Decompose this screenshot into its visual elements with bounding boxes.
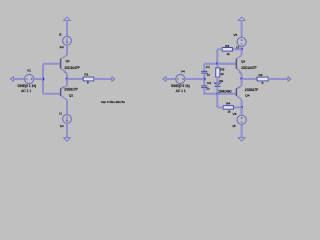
svg-text:R4: R4 (226, 102, 230, 106)
svg-text:R2: R2 (259, 73, 263, 77)
capacitor C1 (201, 65, 210, 77)
diode D3 1N4148 (214, 79, 232, 94)
svg-text:AC 1 1: AC 1 1 (176, 89, 186, 93)
wire Q4 collector down (241, 100, 243, 108)
wire Q3 base (217, 63, 236, 65)
svg-text:C2: C2 (207, 81, 211, 85)
wire I1 to V- flag (66, 123, 68, 137)
wire arrow to V1 (14, 78, 25, 80)
wire output node to Q2 emitter (66, 79, 68, 86)
wire R1 to output arrow (94, 78, 112, 80)
svg-text:2SB817P: 2SB817P (64, 88, 77, 92)
svg-text:SINE(0 5 1k): SINE(0 5 1k) (171, 84, 190, 88)
wire top bias bus (204, 63, 236, 65)
junction dot (C1/C2/V4) (203, 78, 205, 80)
svg-text:R1: R1 (84, 73, 88, 77)
wire V+ to I2 (66, 21, 68, 37)
svg-text:1k: 1k (226, 52, 230, 56)
svg-text:Q2: Q2 (69, 94, 73, 98)
svg-text:SINE(0 1 1k): SINE(0 1 1k) (17, 84, 36, 88)
wire V1 to base column (34, 78, 43, 80)
svg-text:tran 0 40m 20m 5u: tran 0 40m 20m 5u (101, 100, 125, 104)
wire Q3 collector to rail (241, 49, 243, 55)
wire bus corner down to C1 (203, 64, 205, 71)
transistor Q2 2SB817P (PNP) (43, 86, 78, 100)
voltage source V1 SINE(0 1 1k) (17, 69, 36, 93)
resistor R1 (8 ohm load) (83, 73, 94, 85)
wire R4 up to bottom bus (216, 94, 218, 108)
svg-text:1m: 1m (60, 45, 65, 49)
current source I2 (59, 33, 72, 49)
wire output node to R2 (242, 78, 257, 80)
node: left base column wire (42, 64, 44, 94)
wire V6 to V- flag (241, 124, 243, 137)
svg-text:1u: 1u (206, 87, 210, 91)
svg-text:R5: R5 (220, 67, 224, 71)
svg-text:2SD1047P: 2SD1047P (64, 66, 79, 70)
svg-text:V4: V4 (181, 70, 185, 74)
wire R3 down to bias node (216, 49, 218, 64)
svg-text:2SB817P: 2SB817P (245, 88, 258, 92)
resistor R5 (216, 64, 225, 83)
junction dot (emitter/output node) (66, 78, 68, 80)
wire arrow to V4 (166, 78, 176, 80)
power flag V+ (up arrow) (238, 17, 245, 21)
transistor Q1 2SD1047P (NPN) (43, 55, 80, 73)
ground flag (left arrow at V1) (10, 77, 13, 82)
svg-text:Q3: Q3 (241, 59, 245, 63)
wire C1 to V4 node (203, 74, 205, 86)
wire Q2 collector to I1 (66, 100, 68, 115)
voltage source V6 (15V) (232, 107, 246, 128)
capacitor C2 (201, 81, 211, 91)
wire V4 to C1/C2 node (185, 78, 204, 80)
svg-text:V1: V1 (27, 69, 31, 73)
spice directive .tran (101, 100, 125, 104)
svg-text:2SD1047P: 2SD1047P (241, 66, 256, 70)
power flag V- (down arrow) (238, 138, 245, 141)
voltage source V5 (15V) (233, 33, 246, 50)
resistor R3 (217, 44, 241, 56)
svg-text:8: 8 (262, 81, 264, 85)
junction dot (bias bus / R5) (216, 63, 218, 65)
power flag V+ (up arrow) (64, 17, 71, 21)
svg-text:AC 1 1: AC 1 1 (21, 89, 31, 93)
resistor R2 (8 ohm load) (257, 73, 268, 85)
wire R2 to output arrow (268, 78, 288, 80)
ground flag (left arrow at V4) (163, 77, 166, 82)
junction dot (bottom bus / D3 / R4) (216, 93, 218, 95)
wire V+ to V5 (241, 21, 243, 38)
svg-text:V5: V5 (233, 33, 237, 37)
wire output node to Q4 emitter (241, 79, 243, 86)
wire output node to R1 (67, 78, 83, 80)
svg-text:8: 8 (87, 81, 89, 85)
svg-text:V6: V6 (233, 112, 237, 116)
wire V5 to rail junction (241, 47, 243, 50)
wire Q1 emitter to output node (66, 74, 68, 80)
svg-text:R3: R3 (225, 44, 229, 48)
power flag V- (down arrow) (64, 138, 71, 141)
output flag (right arrow) (288, 77, 291, 82)
junction dot (push-pull output node) (240, 78, 242, 80)
svg-text:15: 15 (232, 124, 236, 128)
output flag (right arrow) (112, 77, 115, 82)
svg-text:1N4148C: 1N4148C (218, 89, 232, 93)
svg-text:Q1: Q1 (66, 59, 70, 63)
resistor R4 (217, 102, 241, 114)
junction dot (base column / V1) (42, 78, 44, 80)
voltage source V4 SINE(0 5 1k) (171, 70, 190, 93)
svg-text:1u: 1u (207, 73, 211, 77)
svg-text:10: 10 (220, 72, 224, 76)
svg-text:1m: 1m (60, 124, 65, 128)
junction dot (V5 / R3 / Q3 collector) (240, 48, 242, 50)
svg-text:D3: D3 (219, 79, 223, 83)
svg-text:1k: 1k (227, 109, 231, 113)
transistor Q4 2SB817P (PNP) (236, 86, 258, 100)
wire Q3 emitter to output node (241, 74, 243, 79)
svg-text:C1: C1 (206, 65, 210, 69)
svg-text:Q4: Q4 (245, 93, 249, 97)
junction dot (Q4 collector / R4 / V6) (240, 106, 242, 108)
wire I2 to Q1 collector (66, 45, 68, 55)
svg-text:I1: I1 (59, 112, 62, 116)
current source I1 (59, 112, 71, 129)
transistor Q3 2SD1047P (NPN) (236, 55, 256, 73)
svg-text:I2: I2 (59, 33, 62, 37)
wire C2 down corner to bottom bus (204, 88, 236, 94)
